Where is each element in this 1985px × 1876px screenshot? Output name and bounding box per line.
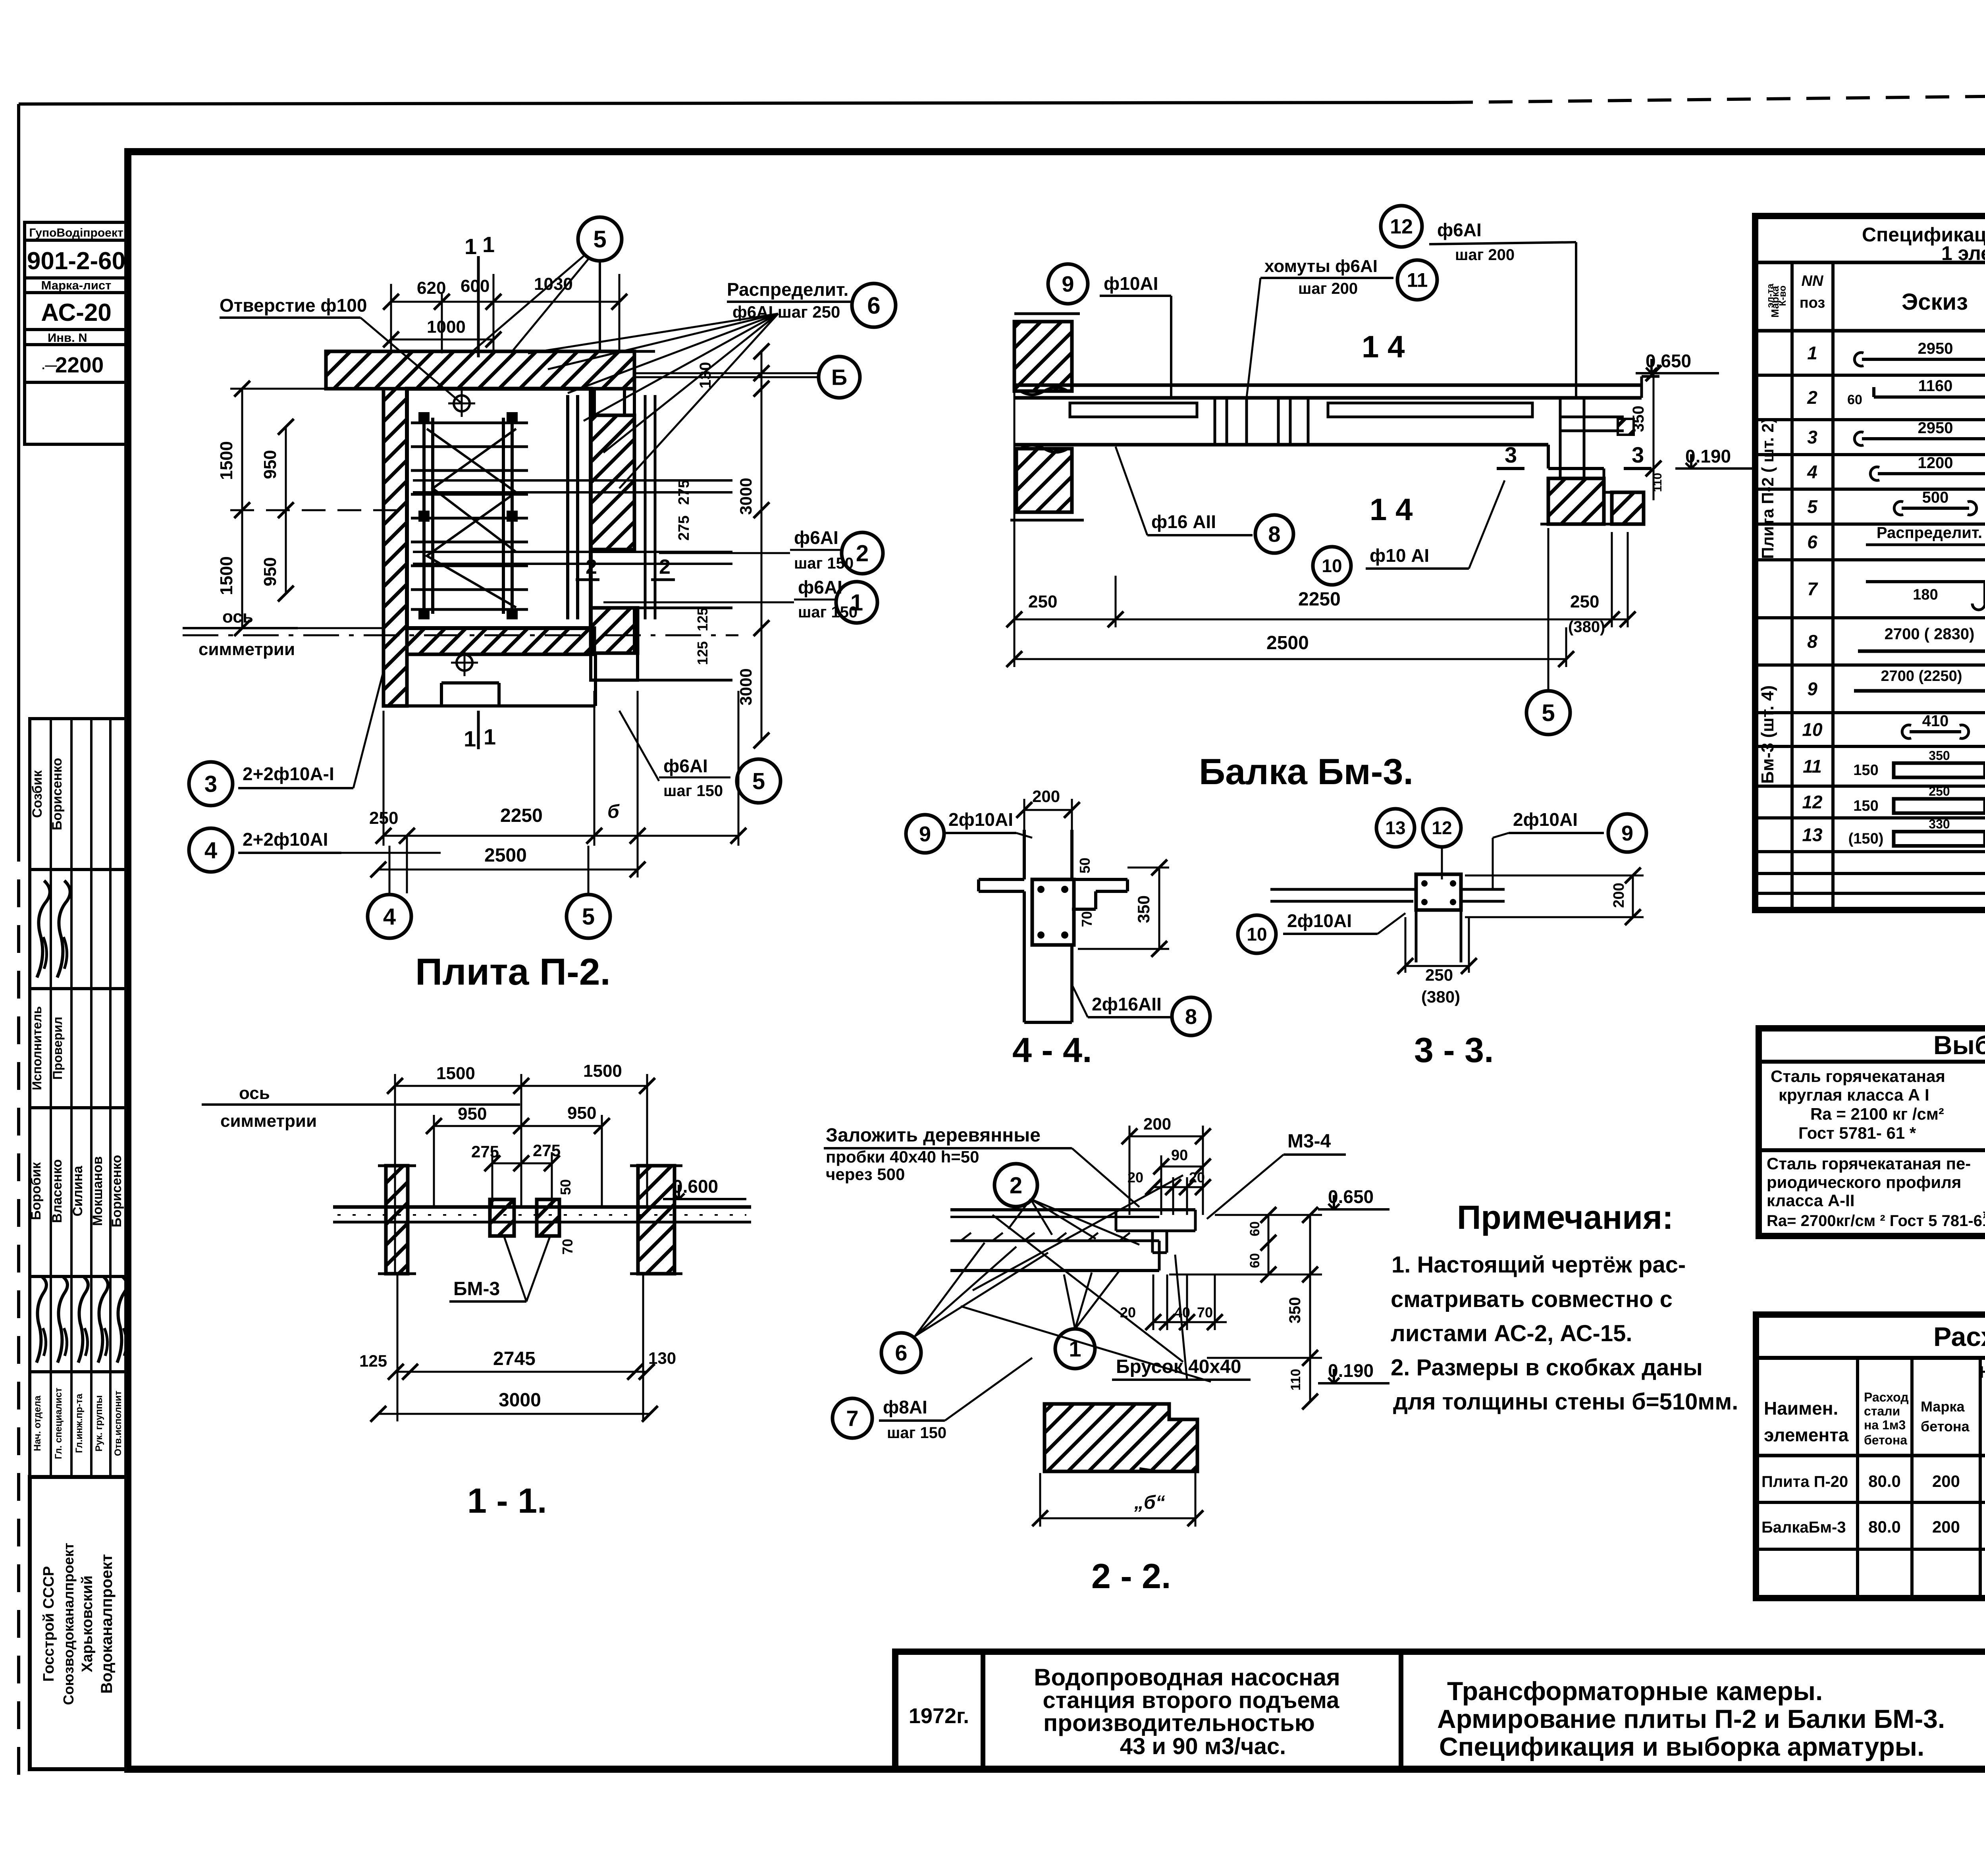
svg-text:пробки 40х40 h=50: пробки 40х40 h=50 [826, 1147, 979, 1166]
svg-text:Госстрой СССР: Госстрой СССР [40, 1566, 57, 1681]
svg-text:1500: 1500 [217, 441, 236, 480]
svg-text:для толщины стены б=510мм.: для толщины стены б=510мм. [1393, 1389, 1738, 1415]
svg-text:70: 70 [559, 1239, 576, 1255]
svg-text:5: 5 [582, 904, 595, 929]
svg-text:шаг 200: шаг 200 [1298, 280, 1358, 297]
svg-text:6: 6 [1807, 532, 1817, 552]
svg-text:330: 330 [1929, 817, 1950, 831]
svg-text:На 1 Элемент: На 1 Элемент [1979, 1363, 1985, 1381]
svg-text:б: б [607, 801, 620, 822]
svg-text:110: 110 [1288, 1369, 1303, 1391]
svg-text:Заложить деревянные: Заложить деревянные [826, 1125, 1041, 1146]
svg-text:(380): (380) [1421, 987, 1460, 1006]
svg-text:11: 11 [1407, 269, 1428, 291]
svg-text:БМ-3: БМ-3 [453, 1278, 500, 1300]
svg-text:1500: 1500 [583, 1061, 622, 1081]
svg-text:1: 1 [1069, 1336, 1081, 1361]
svg-text:150: 150 [1853, 762, 1878, 779]
svg-text:Гл.инж.пр-та: Гл.инж.пр-та [74, 1394, 85, 1453]
svg-text:1 - 1.: 1 - 1. [467, 1481, 547, 1520]
svg-text:2500: 2500 [1266, 632, 1309, 654]
svg-text:поз: поз [1800, 295, 1825, 311]
svg-text:125: 125 [359, 1352, 387, 1370]
svg-text:2ф10АI: 2ф10АI [1513, 809, 1578, 830]
svg-text:ось: ось [239, 1084, 270, 1103]
svg-text:130: 130 [648, 1349, 676, 1367]
svg-text:9: 9 [1621, 821, 1633, 845]
svg-text:9: 9 [1807, 679, 1817, 699]
svg-text:2950: 2950 [1918, 340, 1953, 357]
svg-text:Расход: Расход [1864, 1390, 1909, 1404]
svg-text:Распределит.: Распределит. [727, 279, 848, 300]
svg-text:1160: 1160 [1918, 377, 1953, 395]
svg-text:Примечания:: Примечания: [1457, 1199, 1673, 1236]
svg-text:10: 10 [1322, 555, 1342, 576]
svg-text:43 и 90 м3/час.: 43 и 90 м3/час. [1120, 1733, 1286, 1759]
svg-text:К-во: К-во [1777, 285, 1788, 306]
svg-text:Нач. отдела: Нач. отдела [32, 1395, 43, 1451]
svg-text:8: 8 [1185, 1005, 1197, 1029]
svg-text:2. Размеры в скобках даны: 2. Размеры в скобках даны [1391, 1355, 1703, 1380]
svg-text:Трансформаторные камеры.: Трансформаторные камеры. [1447, 1676, 1823, 1706]
svg-text:Борисенко: Борисенко [109, 1155, 124, 1228]
svg-text:6: 6 [867, 292, 880, 319]
svg-text:901-2-60: 901-2-60 [27, 247, 125, 275]
svg-text:(150): (150) [1848, 831, 1884, 847]
svg-text:2500: 2500 [484, 845, 527, 866]
svg-text:2: 2 [856, 540, 869, 566]
svg-text:5: 5 [1542, 700, 1555, 726]
svg-text:Расход: Расход [1933, 1322, 1985, 1352]
svg-text:250: 250 [1425, 966, 1453, 984]
svg-text:2+2ф10А-I: 2+2ф10А-I [243, 764, 334, 784]
svg-text:125: 125 [694, 641, 711, 665]
svg-text:симметрии: симметрии [220, 1111, 317, 1131]
svg-text:275: 275 [471, 1142, 499, 1161]
svg-text:бетона: бетона [1864, 1433, 1907, 1447]
svg-text:NN: NN [1802, 273, 1824, 289]
svg-text:1200: 1200 [1918, 454, 1953, 472]
svg-text:250: 250 [1570, 592, 1599, 611]
svg-text:60: 60 [1247, 1221, 1262, 1236]
svg-text:1 4: 1 4 [1362, 329, 1405, 364]
svg-text:350: 350 [1929, 748, 1950, 763]
svg-text:ф8АI: ф8АI [883, 1397, 927, 1417]
svg-text:1: 1 [482, 232, 495, 257]
svg-text:10: 10 [1802, 719, 1823, 740]
svg-text:70: 70 [1079, 911, 1095, 927]
svg-text:12: 12 [1432, 817, 1452, 838]
svg-text:„б“: „б“ [1134, 1492, 1165, 1513]
svg-text:200: 200 [1932, 1472, 1960, 1490]
svg-text:Б: Б [831, 365, 847, 390]
svg-text:50: 50 [1077, 858, 1093, 873]
svg-text:бетона: бетона [1921, 1418, 1970, 1434]
svg-text:1. Настоящий чертёж рас-: 1. Настоящий чертёж рас- [1391, 1252, 1686, 1278]
svg-text:элемента: элемента [1764, 1425, 1849, 1445]
svg-text:1972г.: 1972г. [909, 1704, 969, 1728]
svg-text:12: 12 [1802, 792, 1823, 812]
svg-text:1 элемент: 1 элемент [1941, 242, 1985, 264]
svg-text:симметрии: симметрии [198, 640, 295, 659]
svg-text:275: 275 [676, 480, 692, 505]
svg-text:(380): (380) [1568, 618, 1605, 636]
svg-text:80.0: 80.0 [1868, 1472, 1901, 1490]
svg-text:150: 150 [1853, 798, 1878, 814]
svg-text:Бм-3 (шт. 4): Бм-3 (шт. 4) [1758, 685, 1777, 784]
svg-text:АС-20: АС-20 [41, 299, 112, 326]
svg-text:350: 350 [1134, 895, 1153, 923]
svg-text:3: 3 [1505, 442, 1517, 467]
svg-text:круглая класса А I: круглая класса А I [1779, 1085, 1929, 1104]
svg-text:хомуты ф6АI: хомуты ф6АI [1264, 256, 1378, 276]
svg-text:Гост 5781- 61 *: Гост 5781- 61 * [1798, 1124, 1916, 1142]
svg-text:3: 3 [204, 771, 217, 797]
svg-text:5: 5 [752, 768, 765, 794]
svg-text:Сталь горячекатаная пе-: Сталь горячекатаная пе- [1767, 1154, 1971, 1173]
svg-text:20: 20 [1120, 1304, 1136, 1321]
svg-text:8: 8 [1807, 631, 1817, 652]
svg-text:Марка-лист: Марка-лист [41, 278, 112, 292]
svg-text:Марка: Марка [1921, 1398, 1965, 1415]
svg-text:9: 9 [1062, 272, 1074, 297]
svg-text:1500: 1500 [436, 1064, 475, 1083]
svg-text:Гл. специалист: Гл. специалист [53, 1388, 64, 1459]
svg-text:125: 125 [694, 607, 711, 631]
svg-text:Рук. группы: Рук. группы [94, 1395, 104, 1452]
svg-text:250: 250 [1028, 592, 1057, 611]
svg-text:2745: 2745 [493, 1348, 536, 1369]
svg-text:Отверстие ф100: Отверстие ф100 [220, 295, 367, 316]
svg-text:ф10 АI: ф10 АI [1370, 545, 1429, 566]
svg-text:950: 950 [260, 557, 280, 586]
svg-text:Инв. N: Инв. N [48, 331, 87, 345]
svg-text:1: 1 [1807, 343, 1817, 363]
svg-text:13: 13 [1385, 817, 1405, 838]
svg-text:риодического профиля: риодического профиля [1767, 1173, 1961, 1192]
svg-text:2700 (2250): 2700 (2250) [1881, 668, 1962, 684]
svg-text:60: 60 [1847, 392, 1862, 407]
svg-text:Наимен.: Наимен. [1764, 1398, 1838, 1419]
svg-text:Боробик: Боробик [29, 1162, 44, 1220]
svg-text:950: 950 [260, 450, 280, 479]
svg-text:7: 7 [846, 1406, 858, 1431]
svg-text:90: 90 [1171, 1147, 1188, 1164]
svg-text:2: 2 [1807, 387, 1817, 408]
svg-text:1: 1 [484, 724, 496, 749]
svg-text:класса А-II: класса А-II [1767, 1191, 1854, 1210]
svg-text:ф6АI: ф6АI [1437, 220, 1482, 240]
svg-text:2950: 2950 [1918, 419, 1953, 437]
svg-text:4: 4 [383, 904, 396, 929]
svg-text:2 - 2.: 2 - 2. [1091, 1556, 1171, 1596]
svg-text:950: 950 [567, 1103, 596, 1123]
svg-text:3: 3 [1632, 442, 1644, 467]
svg-text:производительностью: производительностью [1043, 1710, 1315, 1736]
svg-text:ф16 АII: ф16 АII [1151, 511, 1216, 532]
svg-text:1 4: 1 4 [1370, 492, 1413, 527]
svg-text:Союзводоканалпроект: Союзводоканалпроект [60, 1543, 77, 1705]
svg-text:2ф10АI: 2ф10АI [948, 809, 1013, 830]
svg-text:2ф16АII: 2ф16АII [1092, 994, 1162, 1014]
svg-text:Эскиз: Эскиз [1902, 289, 1968, 315]
svg-text:410: 410 [1922, 712, 1949, 730]
svg-text:7: 7 [1807, 578, 1818, 599]
svg-text:2200: 2200 [55, 353, 104, 377]
svg-text:180: 180 [1913, 586, 1938, 603]
svg-text:3000: 3000 [499, 1390, 541, 1411]
svg-text:5: 5 [1807, 496, 1818, 517]
svg-text:2: 2 [659, 555, 671, 578]
svg-text:12: 12 [1390, 215, 1413, 238]
svg-text:1: 1 [464, 726, 476, 751]
svg-text:Отв.исполнит: Отв.исполнит [113, 1390, 123, 1456]
svg-text:950: 950 [458, 1104, 487, 1124]
svg-text:Созбик: Созбик [30, 770, 45, 818]
svg-text:ф6АI: ф6АI [798, 577, 842, 598]
svg-text:листами АС-2, АС-15.: листами АС-2, АС-15. [1391, 1321, 1632, 1346]
svg-text:275: 275 [676, 515, 692, 540]
svg-text:Силина: Силина [70, 1165, 85, 1216]
svg-text:4: 4 [204, 837, 217, 863]
svg-text:8: 8 [1268, 522, 1280, 547]
svg-text:через 500: через 500 [826, 1165, 905, 1184]
svg-text:275: 275 [533, 1141, 561, 1160]
svg-text:600: 600 [461, 276, 490, 296]
svg-text:200: 200 [1932, 1517, 1960, 1536]
svg-text:200: 200 [1611, 883, 1627, 908]
svg-text:Спецификация и выборка арма: Спецификация и выборка арматуры. [1439, 1732, 1924, 1761]
svg-text:4 - 4.: 4 - 4. [1012, 1030, 1092, 1070]
svg-text:эл-та: эл-та [1765, 283, 1776, 308]
svg-text:350: 350 [1630, 406, 1647, 432]
svg-text:шаг 200: шаг 200 [1455, 246, 1515, 264]
svg-text:50: 50 [557, 1179, 574, 1195]
svg-text:10: 10 [1247, 924, 1267, 945]
svg-text:БалкаБм-3: БалкаБм-3 [1761, 1519, 1846, 1536]
svg-text:2: 2 [1010, 1172, 1022, 1198]
svg-text:11: 11 [1803, 756, 1822, 777]
svg-text:500: 500 [1922, 489, 1949, 506]
svg-text:ф6АI: ф6АI [794, 527, 838, 548]
svg-text:13: 13 [1802, 825, 1823, 845]
svg-text:на 1м3: на 1м3 [1864, 1418, 1906, 1432]
svg-text:ф6АI: ф6АI [663, 756, 708, 776]
svg-text:М3-4: М3-4 [1287, 1131, 1331, 1152]
svg-text:Плита П-20: Плита П-20 [1761, 1473, 1848, 1490]
svg-text:Мокшанов: Мокшанов [90, 1156, 105, 1226]
svg-text:ф10АI: ф10АI [1104, 273, 1158, 294]
svg-text:Плита П-2 ( шт. 2): Плита П-2 ( шт. 2) [1758, 418, 1777, 559]
svg-text:Армирование плиты П-2 и Балки: Армирование плиты П-2 и Балки БМ-3. [1437, 1704, 1945, 1733]
svg-text:9: 9 [919, 822, 931, 846]
svg-text:1: 1 [464, 234, 477, 259]
svg-text:стали: стали [1864, 1404, 1900, 1418]
svg-text:шаг 150: шаг 150 [887, 1424, 946, 1442]
svg-text:ГупоВодіпроект: ГупоВодіпроект [29, 226, 123, 239]
svg-text:Брусок 40х40: Брусок 40х40 [1116, 1356, 1241, 1377]
svg-text:5: 5 [593, 226, 606, 253]
svg-text:шаг 150: шаг 150 [663, 782, 723, 800]
svg-text:2250: 2250 [1298, 589, 1341, 610]
svg-text:сматривать совместно с: сматривать совместно с [1391, 1286, 1673, 1312]
svg-text:шаг 150: шаг 150 [794, 555, 854, 572]
svg-text:.—: .— [42, 359, 57, 372]
svg-text:Сталь горячекатаная: Сталь горячекатаная [1771, 1067, 1945, 1085]
svg-text:Выборка: Выборка [1933, 1030, 1985, 1060]
svg-text:Балка Бм-3.: Балка Бм-3. [1199, 752, 1413, 792]
svg-text:250: 250 [1929, 784, 1950, 798]
svg-text:60: 60 [1247, 1253, 1262, 1268]
svg-text:80.0: 80.0 [1868, 1517, 1901, 1536]
svg-text:350: 350 [1286, 1297, 1304, 1324]
svg-text:*: * [1983, 1207, 1985, 1224]
svg-text:2ф10АI: 2ф10АI [1287, 910, 1352, 931]
svg-text:1500: 1500 [217, 556, 236, 595]
svg-text:3: 3 [1807, 427, 1817, 447]
svg-text:Распределит.: Распределит. [1877, 524, 1982, 542]
svg-text:Ra = 2100 кг /см²: Ra = 2100 кг /см² [1810, 1105, 1944, 1123]
svg-text:Борисенко: Борисенко [50, 758, 65, 831]
svg-text:200: 200 [1032, 787, 1060, 806]
svg-text:3000: 3000 [736, 478, 755, 515]
svg-text:2: 2 [586, 555, 597, 578]
svg-text:2700 ( 2830): 2700 ( 2830) [1885, 625, 1975, 643]
svg-text:200: 200 [1143, 1114, 1171, 1133]
svg-text:Ra= 2700кг/см ² Гост 5 781-61: Ra= 2700кг/см ² Гост 5 781-61 [1767, 1212, 1985, 1230]
svg-text:Плита П-2.: Плита П-2. [415, 951, 611, 993]
svg-text:Проверил: Проверил [50, 1017, 65, 1080]
svg-text:Исполнитель: Исполнитель [30, 1006, 44, 1090]
svg-text:шаг 150: шаг 150 [798, 603, 858, 621]
svg-text:Власенко: Власенко [50, 1159, 65, 1223]
svg-text:2250: 2250 [500, 805, 543, 826]
svg-text:Водопроводная насосная: Водопроводная насосная [1034, 1664, 1340, 1691]
svg-text:2+2ф10АI: 2+2ф10АI [243, 829, 328, 850]
svg-text:6: 6 [895, 1340, 907, 1365]
svg-text:1000: 1000 [427, 317, 466, 337]
svg-text:3 - 3.: 3 - 3. [1414, 1030, 1494, 1070]
svg-text:Водоканалпроект: Водоканалпроект [98, 1554, 116, 1694]
svg-text:4: 4 [1807, 462, 1817, 482]
svg-text:70: 70 [1197, 1304, 1213, 1321]
svg-text:Харьковский: Харьковский [79, 1575, 96, 1672]
